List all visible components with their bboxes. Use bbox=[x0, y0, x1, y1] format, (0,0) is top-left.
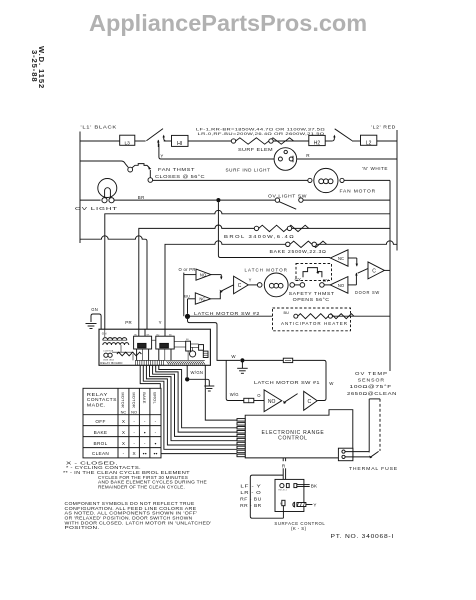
svg-text:BU: BU bbox=[156, 334, 159, 336]
svg-text:'N' WHITE: 'N' WHITE bbox=[362, 166, 388, 171]
svg-text:NC: NC bbox=[199, 297, 205, 302]
svg-text:RR - BR: RR - BR bbox=[240, 503, 262, 508]
svg-text:M: M bbox=[280, 503, 282, 506]
svg-text:CONTACTS: CONTACTS bbox=[87, 397, 117, 402]
svg-text:C143 HI2A: C143 HI2A bbox=[103, 350, 114, 353]
svg-text:NC: NC bbox=[338, 256, 344, 261]
svg-text:RF - BU: RF - BU bbox=[240, 497, 262, 502]
svg-text:●●: ●● bbox=[153, 452, 157, 456]
svg-text:DOOR SW: DOOR SW bbox=[355, 290, 380, 295]
svg-text:FAN THMST: FAN THMST bbox=[158, 167, 195, 172]
svg-text:BU: BU bbox=[184, 293, 190, 298]
svg-text:BAKE: BAKE bbox=[94, 430, 108, 435]
svg-text:●●: ●● bbox=[143, 452, 147, 456]
svg-text:O: O bbox=[257, 393, 261, 398]
svg-text:LR-0,RF-BU=200W,26.4Ω OR 2600: LR-0,RF-BU=200W,26.4Ω OR 2600W,21.5Ω bbox=[198, 132, 325, 136]
svg-text:OPENS 56°C: OPENS 56°C bbox=[293, 297, 330, 302]
svg-text:SURF ELEM: SURF ELEM bbox=[238, 147, 273, 152]
svg-text:R: R bbox=[282, 463, 286, 468]
svg-text:PT. NO. 340068-I: PT. NO. 340068-I bbox=[331, 534, 395, 540]
svg-text:'L1' BLACK: 'L1' BLACK bbox=[81, 124, 118, 129]
svg-text:LATCH MOTOR SW #1: LATCH MOTOR SW #1 bbox=[254, 380, 320, 385]
svg-text:100Ω@75°F: 100Ω@75°F bbox=[350, 384, 393, 390]
svg-text:4B 05: 4B 05 bbox=[110, 338, 116, 340]
svg-text:W: W bbox=[231, 354, 236, 359]
svg-text:W/G: W/G bbox=[230, 392, 239, 397]
svg-text:POSITION.: POSITION. bbox=[65, 525, 100, 530]
svg-text:C: C bbox=[238, 283, 242, 289]
svg-text:R: R bbox=[306, 153, 310, 158]
svg-text:NO: NO bbox=[200, 272, 207, 277]
svg-text:LR - O: LR - O bbox=[240, 490, 261, 495]
svg-text:BAKE: BAKE bbox=[142, 392, 147, 404]
svg-text:W/GN: W/GN bbox=[191, 370, 204, 375]
svg-text:CLEAN: CLEAN bbox=[92, 451, 109, 456]
svg-text:OV LIGHT SW: OV LIGHT SW bbox=[268, 193, 307, 198]
svg-text:2650Ω@CLEAN: 2650Ω@CLEAN bbox=[347, 391, 397, 397]
svg-text:OFF: OFF bbox=[95, 419, 105, 424]
svg-text:LF-1,RR-BR=1850W,44.7Ω OR 110: LF-1,RR-BR=1850W,44.7Ω OR 1100W,37.5Ω bbox=[196, 127, 325, 131]
svg-text:THERMAL FUSE: THERMAL FUSE bbox=[349, 466, 398, 472]
svg-text:LATCH MOTOR SW #2: LATCH MOTOR SW #2 bbox=[194, 311, 260, 316]
svg-text:BROL: BROL bbox=[94, 441, 108, 446]
svg-text:BROL 3400W,6.4Ω: BROL 3400W,6.4Ω bbox=[224, 234, 295, 239]
svg-text:O or PR: O or PR bbox=[179, 267, 196, 272]
svg-text:CLOSES @ 56°C: CLOSES @ 56°C bbox=[155, 174, 205, 179]
svg-text:'L2' RED: 'L2' RED bbox=[371, 124, 396, 129]
svg-text:MADE.: MADE. bbox=[87, 403, 106, 408]
svg-text:(K - S): (K - S) bbox=[291, 526, 307, 531]
svg-text:HI: HI bbox=[177, 141, 182, 147]
svg-text:GY: GY bbox=[323, 278, 329, 283]
svg-text:Y: Y bbox=[159, 320, 162, 325]
svg-text:Y: Y bbox=[249, 277, 252, 282]
svg-text:BAKE 2500W,22.3Ω: BAKE 2500W,22.3Ω bbox=[270, 249, 327, 254]
svg-text:C: C bbox=[372, 268, 376, 274]
svg-text:Y: Y bbox=[160, 153, 163, 158]
svg-text:PR: PR bbox=[125, 320, 132, 325]
svg-text:BR: BR bbox=[138, 195, 145, 200]
svg-text:NC: NC bbox=[121, 410, 127, 415]
svg-text:ANTICIPATOR HEATER: ANTICIPATOR HEATER bbox=[281, 321, 348, 326]
svg-text:●: ● bbox=[154, 441, 156, 445]
svg-text:MOTOR: MOTOR bbox=[131, 392, 136, 408]
svg-text:Y: Y bbox=[313, 503, 316, 508]
svg-text:RELAY: RELAY bbox=[87, 392, 109, 397]
svg-text:OV TEMP: OV TEMP bbox=[355, 371, 388, 377]
svg-text:SAFETY THMST: SAFETY THMST bbox=[289, 291, 335, 296]
svg-text:OV LIGHT: OV LIGHT bbox=[75, 206, 118, 211]
svg-text:NO: NO bbox=[338, 283, 345, 288]
svg-text:MOTOR: MOTOR bbox=[121, 392, 126, 408]
svg-text:BU: BU bbox=[186, 339, 189, 341]
svg-text:BU: BU bbox=[284, 311, 290, 315]
svg-text:BROL: BROL bbox=[152, 392, 157, 404]
svg-text:REMAINDER OF THE CLEAN CYCLE.: REMAINDER OF THE CLEAN CYCLE. bbox=[98, 484, 185, 489]
svg-text:W: W bbox=[329, 381, 334, 386]
svg-text:GN: GN bbox=[91, 307, 98, 312]
svg-text:NO: NO bbox=[131, 410, 137, 415]
svg-text:LF - Y: LF - Y bbox=[240, 484, 261, 489]
svg-text:BU: BU bbox=[134, 334, 137, 336]
svg-text:GN: GN bbox=[102, 332, 107, 336]
svg-text:BK: BK bbox=[311, 484, 318, 489]
svg-text:H2 L3 L1: H2 L3 L1 bbox=[278, 490, 287, 492]
svg-text:L3: L3 bbox=[125, 141, 131, 147]
svg-text:L2: L2 bbox=[366, 140, 372, 146]
svg-text:NO: NO bbox=[268, 399, 276, 405]
svg-text:FAN MOTOR: FAN MOTOR bbox=[340, 189, 377, 194]
svg-text:CONTROL: CONTROL bbox=[278, 436, 308, 442]
svg-text:C: C bbox=[308, 399, 312, 405]
svg-text:●: ● bbox=[144, 430, 146, 434]
svg-text:SURF IND LIGHT: SURF IND LIGHT bbox=[226, 167, 271, 172]
svg-text:H2: H2 bbox=[314, 140, 321, 146]
svg-text:RELAY BOARD: RELAY BOARD bbox=[100, 361, 123, 365]
svg-text:LATCH MOTOR: LATCH MOTOR bbox=[245, 267, 289, 272]
svg-text:SENSOR: SENSOR bbox=[358, 377, 385, 383]
